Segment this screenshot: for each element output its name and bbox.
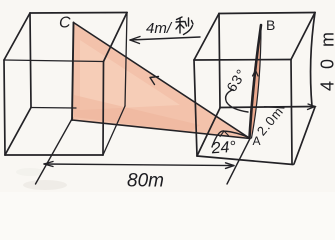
svg-text:B: B [266, 17, 275, 33]
left box top left edge [4, 13, 30, 60]
left box top back edge [30, 12, 127, 15]
80m dimension line [44, 164, 234, 166]
right box bottom front edge [197, 156, 293, 165]
left extension line from D to dimension line [36, 118, 73, 184]
svg-text:4m/: 4m/ [146, 20, 173, 37]
arrowhead on sight line pointing to C [150, 77, 159, 85]
right box back-right vertical [311, 13, 315, 107]
right extension line from A to dimension line [227, 139, 250, 185]
triangle base D-A [72, 120, 250, 139]
small arrow flourish at back-bottom-right corner [308, 104, 316, 110]
left box bottom front edge [5, 154, 103, 156]
thick vertical line B-A [250, 25, 262, 138]
24-degree angle arc at A [212, 131, 249, 147]
paper tint [0, 0, 335, 192]
pink mottle overlay dark [74, 95, 200, 132]
left box back-right vertical [125, 13, 127, 107]
svg-text:40m: 40m [318, 20, 335, 91]
right box top right edge [291, 13, 315, 60]
left box front-right vertical [102, 62, 105, 156]
kanji for seconds (drawn strokes) [176, 17, 193, 35]
paper background [0, 0, 335, 192]
right box bottom right edge [294, 107, 315, 164]
sliver right edge [252, 25, 262, 138]
svg-text:24°: 24° [210, 139, 237, 158]
left box top right edge [104, 13, 128, 62]
right box back-left vertical [219, 14, 220, 108]
right box top front edge [194, 59, 291, 62]
right box front-left vertical [194, 60, 197, 156]
80m left arrowhead [44, 162, 53, 167]
right box bottom back edge [220, 107, 315, 108]
left box top front edge [4, 60, 104, 62]
svg-text:80m: 80m [127, 171, 164, 192]
63-degree angle arc at A [226, 90, 248, 113]
right box top back edge [219, 13, 315, 14]
right box top left edge [194, 14, 219, 61]
right box bottom left edge [197, 108, 220, 156]
sight line C-A (hypotenuse) [74, 23, 251, 139]
speed arrow head [130, 37, 140, 44]
shaded sight-plane triangle C-D-A (pink fill) [72, 23, 250, 139]
faint smudge near left box [16, 168, 44, 176]
left box bottom back edge (visible part) [31, 107, 76, 110]
left box front-left vertical [4, 60, 5, 155]
svg-text:A: A [253, 134, 261, 148]
pink sliver under B [250, 25, 261, 138]
right box front-right vertical [291, 60, 292, 164]
faint eraser smudge [23, 180, 67, 190]
arrowhead on 24-degree arc [220, 131, 229, 137]
left box bottom right edge [103, 106, 125, 155]
small up arrow inside sliver [253, 70, 259, 76]
80m right arrowhead [226, 163, 235, 169]
left box bottom left edge [5, 108, 31, 156]
svg-text:C: C [59, 15, 71, 32]
speed arrow line (4 m/s) [130, 37, 200, 40]
2.0m leader stroke [265, 107, 285, 108]
left box back-left vertical [30, 13, 31, 108]
triangle vertical edge C-D [72, 23, 74, 121]
pink mottle overlay light [80, 40, 180, 110]
